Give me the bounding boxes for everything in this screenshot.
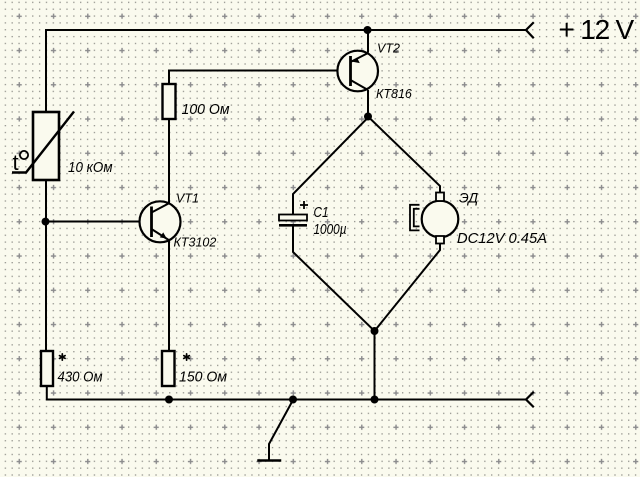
wire +12V top rail — [46, 29, 526, 31]
wire VT2 emitter from rail — [367, 30, 369, 52]
node dot 150 Ом / bottom rail — [165, 396, 173, 404]
wire VT1 emitter to R150 — [168, 241, 170, 351]
svg-text:КТ3102: КТ3102 — [174, 236, 217, 250]
resistor 430 Ом — [41, 351, 103, 386]
VT1 base bar — [150, 207, 153, 238]
wire capacitor bottom to node — [293, 226, 375, 331]
wire base VT1 — [46, 221, 152, 223]
motor body circle — [422, 201, 459, 238]
wire node to bottom rail — [374, 331, 376, 400]
wire bottom rail — [169, 399, 526, 401]
svg-text:430 Ом: 430 Ом — [58, 369, 103, 386]
VT2 emitter stroke — [351, 53, 369, 62]
node dot thermistor / VT1 base — [42, 218, 50, 226]
svg-text:100 Ом: 100 Ом — [182, 101, 230, 118]
resistor body 150 Ohm — [162, 351, 175, 386]
thermistor body — [33, 112, 59, 180]
motor M1 — [410, 190, 547, 248]
svg-text:150 Ом: 150 Ом — [179, 369, 227, 386]
C1 positive plate — [279, 215, 307, 221]
wire left rail middle — [45, 180, 47, 351]
node dot chassis tap — [289, 396, 297, 404]
svg-text:DC12V 0.45A: DC12V 0.45A — [457, 230, 547, 247]
node dot top rail / VT2 — [364, 26, 372, 34]
C1 negative plate — [279, 224, 307, 227]
svg-text:t: t — [13, 150, 19, 175]
VT2 base bar — [349, 56, 352, 86]
wire motor bottom to node — [375, 243, 441, 331]
svg-text:1000µ: 1000µ — [314, 221, 347, 238]
thermistor RK1 — [12, 112, 113, 181]
capacitor C1 — [279, 201, 347, 238]
transistor VT1 KT3102 — [140, 192, 217, 250]
terminal chevron +12V — [526, 23, 533, 38]
svg-text:+ 12 V: + 12 V — [559, 14, 635, 45]
terminal chevron bottom — [526, 393, 533, 407]
transistor VT2 KT816 — [337, 42, 412, 101]
wire VT1 collector — [168, 119, 170, 203]
resistor 150 Ом — [162, 351, 227, 386]
motor bottom terminal — [436, 236, 444, 244]
VT2 emitter arrow — [353, 58, 360, 64]
resistor body 430 Ohm — [41, 351, 53, 386]
asterisk mark — [60, 354, 66, 360]
C1 polarity plus — [300, 204, 308, 206]
asterisk mark — [184, 354, 190, 360]
wire left rail lower — [47, 386, 169, 400]
resistor body 100 Ohm — [163, 84, 176, 119]
svg-text:10 кОм: 10 кОм — [68, 159, 113, 176]
svg-text:C1: C1 — [314, 204, 329, 221]
node dot VT2 collector / bridge top — [364, 113, 372, 121]
wire node to capacitor top — [293, 118, 368, 216]
VT2 circle — [337, 51, 378, 92]
VT1 circle — [140, 201, 181, 242]
node dot bridge bottom — [371, 327, 379, 335]
node dot bridge / bottom rail — [371, 396, 379, 404]
chassis bar — [259, 459, 281, 462]
motor brush bracket outer — [410, 205, 420, 231]
VT1 emitter stroke — [152, 229, 170, 241]
resistor 100 Ом — [163, 84, 230, 119]
wire R1 top to rail corner — [169, 71, 351, 85]
wire left rail upper — [45, 30, 47, 112]
wire chassis tap — [269, 400, 293, 460]
svg-text:ЭД: ЭД — [459, 190, 478, 206]
VT1 collector stroke — [152, 203, 170, 213]
VT1 emitter arrow — [160, 232, 167, 238]
motor brush bracket inner — [414, 209, 420, 227]
VT2 collector stroke — [351, 80, 369, 90]
svg-text:VT1: VT1 — [176, 192, 199, 206]
motor top terminal — [436, 193, 444, 202]
wire node to motor top — [369, 118, 440, 194]
thermistor diagonal stroke — [12, 112, 74, 173]
svg-text:КТ816: КТ816 — [376, 87, 412, 101]
svg-text:VT2: VT2 — [377, 42, 400, 56]
wire VT2 collector to node — [367, 91, 369, 117]
